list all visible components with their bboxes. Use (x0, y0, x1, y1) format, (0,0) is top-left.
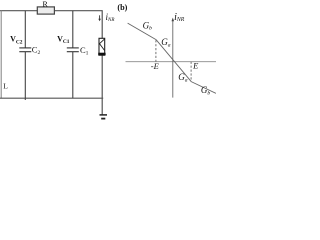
wire C1 branch lower (72, 52, 74, 98)
dashed breakpoint E (190, 62, 192, 82)
svg-text:Gb: Gb (201, 85, 211, 96)
capacitor C1 (67, 48, 79, 52)
graph x-axis (126, 61, 217, 63)
svg-text:Gb: Gb (143, 20, 153, 31)
curve G_b left segment (128, 23, 156, 39)
capacitor C2 (19, 48, 31, 52)
svg-text:-E: -E (151, 61, 160, 71)
svg-text:L: L (3, 82, 8, 91)
wire bottom horizontal (0, 97, 103, 99)
ground (100, 115, 108, 119)
svg-text:C1: C1 (80, 45, 89, 57)
svg-text:(b): (b) (117, 3, 127, 12)
wire C2 branch upper (24, 11, 26, 48)
resistor R box (37, 7, 54, 14)
svg-text:VC2: VC2 (10, 35, 23, 46)
curve G_a middle segment (156, 40, 191, 82)
wire NR branch vertical (101, 10, 103, 114)
svg-text:iNR: iNR (174, 12, 185, 23)
current arrow i_NR (98, 15, 101, 21)
wire C1 branch upper (72, 11, 74, 48)
svg-text:Ga: Ga (161, 37, 171, 48)
svg-text:E: E (192, 61, 199, 71)
nonlinear resistor NR box (99, 38, 105, 55)
svg-text:Ga: Ga (178, 72, 188, 83)
NR zigzag (100, 39, 105, 51)
svg-text:C2: C2 (32, 44, 41, 56)
dashed breakpoint -E (155, 40, 157, 62)
wire left inductor branch L (0, 11, 2, 99)
y-axis arrowhead (172, 18, 175, 22)
svg-text:R: R (43, 0, 49, 9)
wire C2 branch lower (24, 52, 26, 100)
wire top horizontal node wire (0, 10, 102, 12)
curve G_b right segment (191, 82, 216, 94)
NR bottom black band (98, 53, 105, 56)
svg-text:VC1: VC1 (57, 35, 70, 46)
svg-text:iNR: iNR (106, 12, 115, 23)
graph y-axis (172, 20, 174, 98)
